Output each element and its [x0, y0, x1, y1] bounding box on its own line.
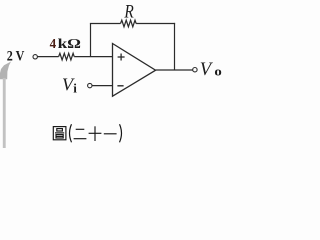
label Vo: [200, 59, 222, 80]
svg-text:o: o: [214, 65, 221, 79]
svg-text:2 V: 2 V: [7, 47, 25, 64]
wire feedback left vertical (node A up): [90, 24, 92, 57]
label 4 kOhm: [50, 37, 81, 52]
glyph 二: [74, 129, 87, 138]
glyph 十: [89, 126, 102, 141]
glyph 圖: [53, 127, 66, 140]
svg-text:i: i: [73, 80, 77, 95]
wire Vi terminal to op-amp inverting input: [92, 85, 113, 87]
op-amp noninverting input marker (+): [118, 54, 125, 61]
caption 圖(二十一): [53, 124, 121, 142]
wire feedback top-right segment: [136, 23, 175, 25]
resistor R1 4kOhm (zigzag): [59, 53, 75, 60]
svg-text:R: R: [124, 2, 135, 23]
wire op-amp output to Vo terminal: [156, 69, 193, 71]
terminal 2V (open circle): [33, 55, 37, 59]
op-amp inverting input marker (-): [117, 85, 123, 87]
resistor R feedback (zigzag): [121, 20, 137, 27]
wire 2V terminal to resistor R1: [37, 56, 58, 58]
label Vi: [62, 74, 77, 95]
terminal Vo (open circle): [193, 68, 197, 72]
glyph (: [70, 124, 72, 142]
svg-text:4: 4: [50, 37, 57, 52]
terminal Vi (open circle): [88, 83, 92, 87]
op-amp U1 (triangle): [113, 44, 156, 97]
wire R1 to op-amp + input (node A): [74, 56, 112, 58]
glyph ): [120, 124, 122, 142]
svg-text:kΩ: kΩ: [58, 37, 81, 52]
gray page-edge scan artifact: [0, 62, 11, 149]
svg-text:V: V: [200, 59, 214, 80]
wire feedback right vertical (down to output): [174, 23, 176, 71]
glyph 一: [104, 133, 117, 135]
wire feedback top-left segment: [90, 23, 121, 25]
